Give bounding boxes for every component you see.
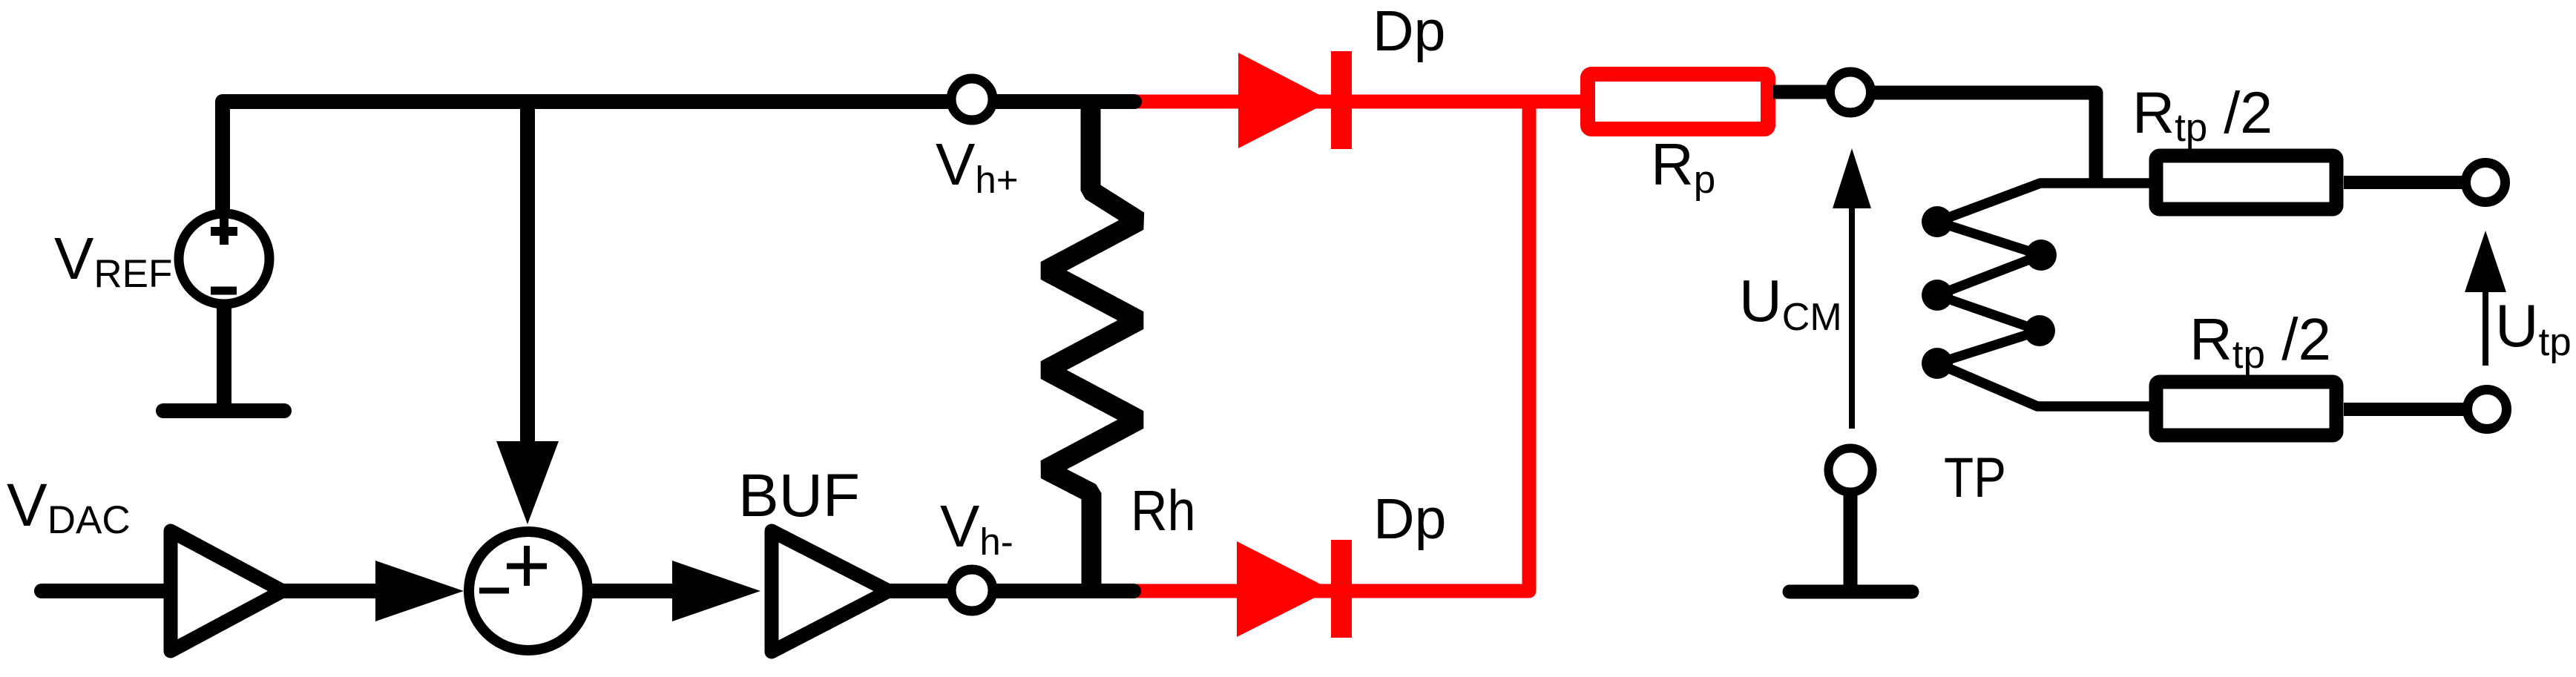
minus sign in summing junction — [479, 588, 509, 594]
arrowhead into BUF — [672, 561, 760, 621]
svg-text:TP: TP — [1944, 446, 2006, 509]
spring dot 1 — [1922, 206, 1953, 237]
wire: top rail from VREF corner to red junction — [223, 102, 1134, 214]
wire: bottom red wire from Vh- to corner, up to top red wire — [1128, 102, 1529, 591]
wire: node to corner and down to Rtp top resistor — [1870, 93, 2096, 183]
diode Dp (bottom) — [1237, 540, 1352, 638]
wire: VREF bottom lead — [217, 300, 231, 408]
resistor Rh (zigzag with leads) — [1045, 102, 1139, 591]
svg-text:Rp: Rp — [1651, 131, 1715, 202]
ground: TP ground bar — [1790, 585, 1912, 599]
svg-text:BUF: BUF — [738, 462, 860, 529]
amplifier BUF triangle — [772, 531, 889, 652]
wire: Rtp bottom to terminal — [2344, 403, 2467, 416]
minus sign in VREF — [211, 287, 237, 295]
amplifier U1 triangle (VDAC buffer) — [171, 531, 283, 651]
node circle TP — [1829, 449, 1873, 492]
wire: summing junction output to BUF — [590, 584, 679, 598]
node circle Vh- — [951, 569, 993, 611]
resistor Rp (red rectangle) — [1588, 74, 1768, 129]
wire: top red wire from Vh+ rail to Rp — [1128, 95, 1595, 109]
spring dot 4 — [2024, 315, 2055, 346]
svg-text:Vh-: Vh- — [940, 493, 1013, 563]
svg-text:Rtp /2: Rtp /2 — [2132, 79, 2273, 150]
arrowhead into summing junction from top — [496, 441, 559, 524]
voltage source VREF circle — [179, 214, 269, 304]
arrow UCM: shaft — [1849, 206, 1855, 429]
svg-text:Rtp /2: Rtp /2 — [2189, 306, 2331, 377]
summing junction S1 circle — [469, 532, 588, 650]
arrow Utp: shaft — [2483, 289, 2488, 366]
plus sign in VREF — [211, 218, 237, 245]
arrow UCM: head — [1833, 148, 1871, 208]
spring dot 2 — [2025, 240, 2057, 271]
wire: spring bottom diagonal and horizontal into Rtp bottom — [1937, 363, 2152, 406]
terminal circle top right — [2466, 163, 2506, 202]
wire: Rtp top to terminal — [2344, 176, 2467, 189]
svg-text:VREF: VREF — [54, 225, 172, 296]
wire: Rp to node circle — [1773, 85, 1833, 99]
terminal circle bottom right — [2468, 390, 2507, 429]
node circle Vh+ — [951, 79, 993, 120]
svg-text:Utp: Utp — [2495, 293, 2572, 364]
spring dot 5 — [1922, 348, 1953, 379]
node circle after Rp — [1830, 72, 1871, 113]
wire: VDAC input wire — [42, 584, 167, 598]
wire: spring top diagonal and horizontal into Rtp top — [1937, 183, 2152, 222]
arrowhead into summing junction — [375, 561, 464, 621]
svg-text:Dp: Dp — [1373, 0, 1445, 63]
plus sign in summing junction — [507, 546, 547, 586]
svg-text:Vh+: Vh+ — [936, 131, 1019, 201]
svg-text:Dp: Dp — [1373, 487, 1446, 551]
wire: TP stem — [1844, 493, 1858, 586]
wire: amp1 output to summing junction — [282, 584, 380, 598]
wire: down arrow shaft from rail to summing junction — [520, 102, 535, 445]
wire: BUF output to Vh- and to red diode — [883, 584, 1134, 598]
resistor Rtp/2 (bottom) — [2156, 382, 2336, 435]
spring dot 3 — [1922, 280, 1953, 311]
svg-text:UCM: UCM — [1739, 268, 1842, 339]
ground: VREF ground bar — [163, 403, 284, 418]
arrow Utp: head — [2465, 231, 2506, 292]
svg-text:VDAC: VDAC — [7, 472, 131, 542]
resistor Rtp/2 (top) — [2156, 156, 2336, 209]
svg-text:Rh: Rh — [1131, 479, 1196, 543]
diode Dp (top) — [1238, 51, 1352, 149]
spring contact TP: zigzag — [1937, 222, 2041, 363]
